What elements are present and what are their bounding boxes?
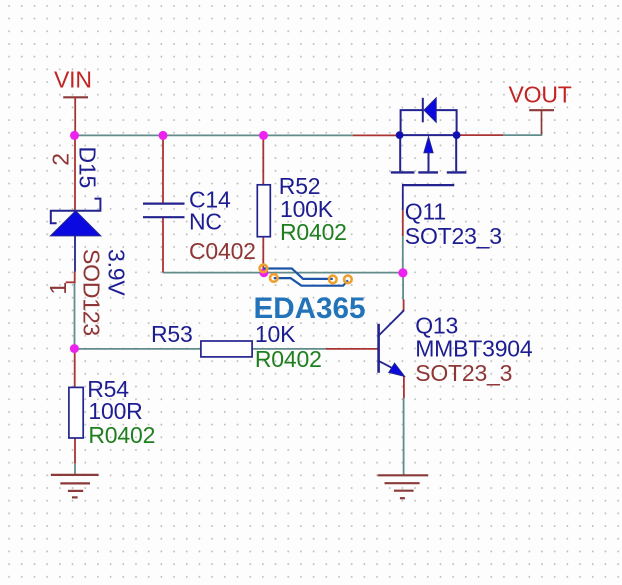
wire Q13 base lead red (326, 348, 378, 350)
wire D15 pin1 lead navy (74, 236, 76, 272)
svg-text:3.9V: 3.9V (104, 249, 130, 296)
junction J5 (398, 268, 407, 277)
junction J6 (70, 344, 79, 353)
svg-text:MMBT3904: MMBT3904 (415, 336, 533, 362)
wire Q11 gate navy (402, 185, 404, 210)
svg-text:SOT23_3: SOT23_3 (405, 223, 502, 249)
resistor R54 (69, 387, 83, 438)
svg-text:Q13: Q13 (415, 312, 458, 338)
svg-text:EDA365: EDA365 (254, 292, 366, 325)
junction J4 (259, 268, 268, 277)
wire to VOUT teal (503, 134, 542, 136)
wire Q13 collector teal (402, 273, 404, 300)
wire R54 bottom red (74, 438, 76, 464)
svg-text:100K: 100K (280, 196, 334, 222)
ground right (378, 475, 428, 498)
wire R52 bottom red (262, 237, 264, 273)
svg-text:R0402: R0402 (280, 219, 347, 245)
svg-text:VIN: VIN (54, 66, 92, 92)
logo trace lower (274, 278, 348, 286)
logo pad A (260, 265, 268, 273)
wire to left ground teal (74, 464, 76, 475)
svg-text:Q11: Q11 (405, 199, 446, 225)
resistor R52 (257, 185, 270, 237)
wire R53 left teal (75, 348, 201, 350)
svg-text:1: 1 (45, 282, 71, 295)
junction J2 (159, 131, 168, 140)
pmos transistor Q11 (391, 98, 467, 185)
npn transistor Q13 (379, 310, 405, 376)
zener diode D15 (50, 199, 100, 236)
wire lower rail teal (163, 272, 404, 274)
wire Q11 drain red (457, 134, 503, 136)
junction Q11 source dot (396, 131, 404, 139)
junction J1 (70, 131, 79, 140)
wire Q11 source lead red (353, 134, 399, 136)
svg-text:100R: 100R (88, 398, 142, 424)
junction Q11 drain dot (453, 131, 461, 139)
wire D15 pin1 red (74, 272, 76, 284)
capacitor C14 (143, 204, 185, 218)
wire Q13 collector red (403, 300, 405, 311)
svg-text:SOT23_3: SOT23_3 (415, 360, 512, 386)
svg-text:R0402: R0402 (255, 346, 322, 372)
ground left (51, 475, 99, 498)
pin 1 end tick (66, 281, 76, 283)
wire C14 top red (162, 135, 164, 203)
wire C14 bottom red (162, 217, 164, 272)
svg-text:SOD123: SOD123 (78, 249, 104, 336)
wire D15 pin2 red (74, 135, 76, 210)
svg-text:C0402: C0402 (189, 238, 256, 264)
wire R53 right teal (252, 348, 326, 350)
logo pad B (270, 274, 278, 282)
svg-text:VOUT: VOUT (509, 82, 572, 108)
wire R52 top red (262, 135, 264, 184)
power port VOUT (509, 82, 572, 136)
svg-text:R0402: R0402 (88, 422, 155, 448)
wire R54 top red (74, 349, 76, 388)
svg-text:R53: R53 (151, 321, 193, 347)
logo pad D (344, 276, 352, 284)
wire top rail teal (75, 134, 354, 136)
junction J3 (259, 131, 268, 140)
logo trace upper (263, 269, 332, 279)
resistor R53 (201, 341, 252, 357)
wire to right ground teal (403, 398, 405, 475)
logo pad C (329, 276, 337, 284)
wire left mid teal (74, 283, 76, 349)
svg-text:NC: NC (189, 208, 222, 234)
svg-text:2: 2 (48, 153, 74, 166)
wire Q11 gate red (402, 210, 404, 236)
power port VIN (54, 66, 92, 135)
wire Q13 emitter red (403, 376, 405, 398)
svg-text:D15: D15 (75, 147, 101, 189)
wire Q11 gate teal (402, 236, 404, 273)
